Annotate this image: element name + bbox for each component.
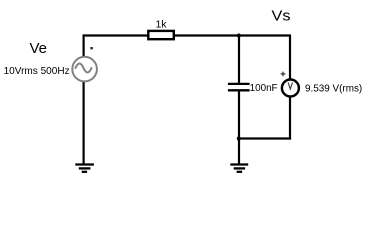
- svg-text:Ve: Ve: [30, 40, 48, 57]
- svg-text:10Vrms 500Hz: 10Vrms 500Hz: [4, 65, 70, 77]
- svg-text:1k: 1k: [155, 18, 167, 30]
- svg-text:Vs: Vs: [272, 8, 291, 25]
- svg-text:100nF: 100nF: [250, 82, 278, 94]
- svg-text:9.539 V(rms): 9.539 V(rms): [305, 83, 362, 95]
